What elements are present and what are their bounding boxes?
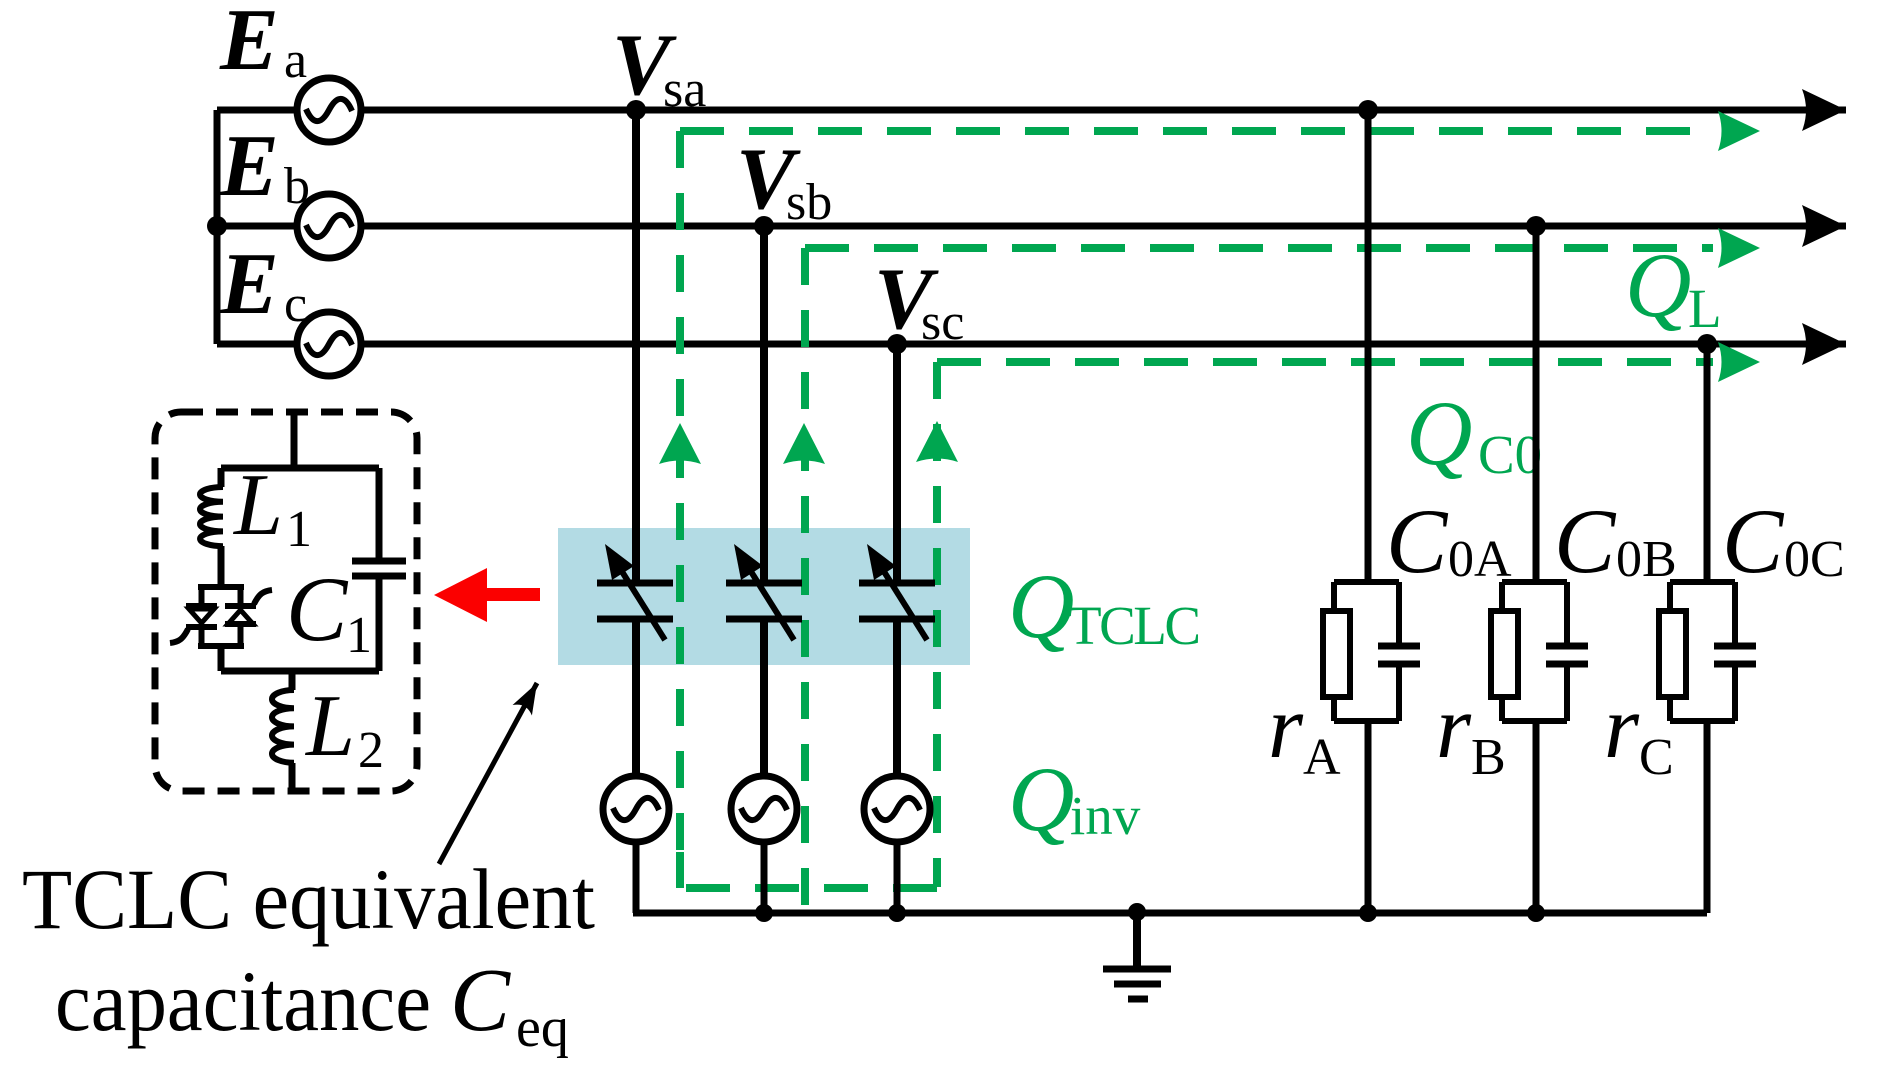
wire branch b lower xyxy=(760,619,768,778)
source Ec xyxy=(297,312,361,376)
green loop bottom wire xyxy=(680,884,937,892)
svg-text:r: r xyxy=(1604,678,1640,777)
wire bottom bus xyxy=(633,910,1707,917)
svg-text:1: 1 xyxy=(346,607,372,664)
svg-text:TCLC: TCLC xyxy=(1068,595,1201,656)
node bus load B xyxy=(1527,904,1545,922)
svg-text:C: C xyxy=(1639,729,1674,786)
green flow loop phase b xyxy=(801,248,809,908)
svg-text:B: B xyxy=(1471,729,1506,786)
svg-text:0B: 0B xyxy=(1616,531,1677,588)
resistor rB xyxy=(1491,611,1518,697)
wire branch c lower xyxy=(893,619,901,778)
load A xyxy=(1323,110,1420,913)
svg-text:A: A xyxy=(1303,729,1341,786)
annotation arrow xyxy=(439,683,537,864)
svg-text:r: r xyxy=(1268,678,1304,777)
resistor rA xyxy=(1323,611,1350,697)
svg-text:b: b xyxy=(284,158,310,215)
inverter source a xyxy=(603,776,669,842)
node bus load A xyxy=(1359,904,1377,922)
node junction on rail xyxy=(207,216,227,236)
svg-text:Q: Q xyxy=(1625,234,1691,336)
svg-text:sb: sb xyxy=(786,174,832,231)
node tap load A xyxy=(1358,100,1378,120)
green flow loop phase c xyxy=(933,362,941,887)
node bus ground xyxy=(1128,903,1146,921)
capacitor C0A xyxy=(1378,643,1420,650)
svg-text:C: C xyxy=(286,558,349,660)
node Vsc xyxy=(887,334,907,354)
svg-text:r: r xyxy=(1436,678,1472,777)
wire left mid xyxy=(218,546,225,587)
svg-text:E: E xyxy=(219,236,279,333)
wire loop bottom xyxy=(221,668,379,675)
svg-text:E: E xyxy=(219,118,279,215)
source Ea xyxy=(297,78,361,142)
svg-text:C: C xyxy=(450,951,511,1050)
wire phase a xyxy=(217,107,1846,114)
svg-text:inv: inv xyxy=(1070,785,1141,846)
svg-text:L: L xyxy=(1688,278,1722,339)
svg-text:1: 1 xyxy=(286,501,312,558)
capacitor C1 xyxy=(352,558,406,565)
node bus b xyxy=(755,904,773,922)
source Eb xyxy=(297,194,361,258)
inverter source b xyxy=(731,776,797,842)
wire left rail xyxy=(214,110,221,344)
load B xyxy=(1491,226,1588,913)
load C xyxy=(1659,344,1756,913)
wire left lower xyxy=(218,646,225,671)
svg-text:eq: eq xyxy=(516,997,569,1059)
TCLC phase-c variable capacitor xyxy=(859,544,935,640)
svg-text:L: L xyxy=(232,457,283,554)
svg-text:C: C xyxy=(1722,490,1785,592)
node Vsa xyxy=(626,100,646,120)
inductor L2 xyxy=(272,690,294,763)
svg-text:Q: Q xyxy=(1406,382,1472,484)
svg-text:C: C xyxy=(1554,490,1617,592)
wire loop right lower xyxy=(376,579,383,671)
wire branch c vertical xyxy=(893,344,901,583)
wire bottom stub xyxy=(289,671,296,690)
wire phase c xyxy=(217,341,1846,348)
TCLC highlight box xyxy=(558,528,970,665)
wire inverter a tail xyxy=(633,842,640,913)
capacitor C0B xyxy=(1546,643,1588,650)
resistor rC xyxy=(1659,611,1686,697)
red arrow xyxy=(434,568,540,622)
inverter source c xyxy=(864,776,930,842)
wire phase b xyxy=(217,223,1846,230)
TCLC phase-a variable capacitor xyxy=(597,544,673,640)
svg-text:E: E xyxy=(219,0,279,89)
node tap load B xyxy=(1526,216,1546,236)
wire loop left upper xyxy=(218,468,225,487)
green up arrow 1 xyxy=(659,423,701,464)
green up arrow 3 xyxy=(916,421,958,462)
TCLC equivalent circuit dashed box xyxy=(155,412,417,791)
svg-text:C: C xyxy=(1386,490,1449,592)
capacitor C0C xyxy=(1714,643,1756,650)
wire loop top xyxy=(221,465,379,472)
wire branch a vertical xyxy=(632,110,640,583)
node tap load C xyxy=(1697,334,1717,354)
svg-text:0C: 0C xyxy=(1784,531,1845,588)
svg-text:TCLC equivalent: TCLC equivalent xyxy=(22,851,595,947)
svg-text:Q: Q xyxy=(1008,748,1074,850)
svg-text:2: 2 xyxy=(358,722,384,779)
wire branch b vertical xyxy=(760,226,768,583)
inductor L1 xyxy=(200,487,223,546)
svg-text:L: L xyxy=(304,678,355,775)
svg-text:capacitance: capacitance xyxy=(55,953,431,1049)
svg-text:sa: sa xyxy=(663,61,706,118)
node bus c xyxy=(888,904,906,922)
svg-text:sc: sc xyxy=(921,294,964,351)
wire inverter b tail xyxy=(761,842,768,917)
ground xyxy=(1103,913,1171,999)
green flow loop QL phase a xyxy=(676,131,684,888)
node Vsb xyxy=(754,216,774,236)
TCLC phase-b variable capacitor xyxy=(726,544,802,640)
svg-text:Q: Q xyxy=(1008,555,1074,657)
wire top stub xyxy=(291,414,298,468)
green up arrow 2 xyxy=(783,423,825,464)
svg-text:a: a xyxy=(284,32,307,89)
wire after L2 xyxy=(289,763,296,789)
svg-text:c: c xyxy=(284,276,307,333)
wire inverter c tail xyxy=(894,842,901,917)
wire loop right upper xyxy=(376,468,383,558)
wire branch a lower xyxy=(632,619,640,778)
thyristor pair xyxy=(170,587,272,646)
